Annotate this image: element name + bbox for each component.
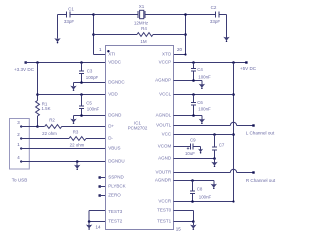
resistor R1 1.5K pull-up <box>36 101 51 127</box>
wire VCCL row <box>174 93 234 96</box>
node XTO net vertical <box>174 13 187 55</box>
svg-text:ZERO: ZERO <box>108 193 121 198</box>
pin PLYBCK stub <box>99 185 106 187</box>
resistor R4 1M <box>94 26 186 44</box>
svg-text:C1: C1 <box>68 7 74 12</box>
svg-text:D-: D- <box>108 136 113 141</box>
svg-text:C2: C2 <box>211 5 217 10</box>
svg-text:XTI: XTI <box>108 52 115 57</box>
svg-text:R Channel out: R Channel out <box>246 178 276 183</box>
svg-text:100nF: 100nF <box>199 195 212 200</box>
svg-text:VOUTR: VOUTR <box>155 170 172 175</box>
resistor R3 22 ohm on D- <box>69 130 106 148</box>
svg-text:VCCR: VCCR <box>158 199 172 204</box>
svg-text:100nF: 100nF <box>87 107 100 112</box>
wire TEST0/TEST1 bracket <box>174 211 195 223</box>
USB pin 3 <box>17 120 39 128</box>
wire DGNDC row <box>74 81 106 84</box>
capacitor C1 <box>64 7 94 25</box>
svg-text:To USB: To USB <box>12 178 28 183</box>
ground on AGNDP row <box>199 81 205 90</box>
R Channel out terminal <box>246 171 276 183</box>
ground on AGND row <box>211 159 217 168</box>
pin number 20 <box>177 47 183 52</box>
capacitor C7 <box>212 135 225 159</box>
svg-text:15: 15 <box>176 227 182 232</box>
pin number 15 <box>176 227 182 232</box>
svg-text:20: 20 <box>177 47 183 52</box>
wire VDDC row <box>26 61 106 64</box>
pin ZERO stub <box>99 194 106 196</box>
wire DGND row <box>74 114 106 117</box>
svg-text:TEST1: TEST1 <box>157 219 172 224</box>
svg-text:22 ohm: 22 ohm <box>70 143 85 148</box>
IC IC1 PCM2702 body <box>106 46 174 230</box>
L Channel out terminal <box>246 124 275 135</box>
capacitor C8 100nF <box>190 181 212 202</box>
svg-text:SSPND: SSPND <box>108 175 124 180</box>
ground for C9 <box>198 147 203 154</box>
ground for TEST3/TEST2 <box>86 222 92 230</box>
svg-text:TEST2: TEST2 <box>108 219 123 224</box>
svg-text:VCCP: VCCP <box>159 60 172 65</box>
USB pin 2 <box>17 132 69 140</box>
wire VDD row <box>38 93 106 96</box>
svg-text:C8: C8 <box>197 187 203 192</box>
pin SSPND stub <box>99 176 106 178</box>
svg-text:100nF: 100nF <box>198 75 211 80</box>
wire AGND row <box>174 157 216 160</box>
svg-text:+3.3V DC: +3.3V DC <box>14 67 35 72</box>
svg-text:22 ohm: 22 ohm <box>42 131 57 136</box>
svg-text:DGNDC: DGNDC <box>108 80 125 85</box>
svg-text:100nF: 100nF <box>198 107 211 112</box>
svg-text:C7: C7 <box>219 143 225 148</box>
crystal X1 12MHz <box>134 4 149 26</box>
ground on AGNDL row <box>199 116 205 125</box>
svg-text:PCM2702: PCM2702 <box>128 126 148 131</box>
svg-text:VBUS: VBUS <box>108 146 120 151</box>
svg-text:VCOM: VCOM <box>158 144 172 149</box>
wire VOUTL row with hop <box>174 122 254 125</box>
wire +5V rail <box>232 63 235 202</box>
ground on DGNDU row <box>74 162 80 171</box>
ground for C2 <box>223 15 229 43</box>
svg-text:VCCL: VCCL <box>159 92 172 97</box>
svg-text:PLYBCK: PLYBCK <box>108 184 125 189</box>
svg-text:VOUTL: VOUTL <box>156 123 172 128</box>
svg-text:R4: R4 <box>141 26 147 31</box>
svg-text:AGND: AGND <box>158 156 172 161</box>
wire AGNDL row <box>174 114 202 117</box>
svg-text:14: 14 <box>95 225 101 230</box>
svg-text:C9: C9 <box>190 138 196 143</box>
svg-text:TEST0: TEST0 <box>157 208 172 213</box>
USB connector J1 <box>10 119 30 183</box>
svg-text:AGNDR: AGNDR <box>155 178 172 183</box>
ground for C1 <box>54 15 60 44</box>
pin number 1 <box>99 47 102 52</box>
ground on DGNDC row <box>70 83 76 91</box>
capacitor C6 100nF <box>191 95 211 116</box>
wire X1 to C2 <box>145 14 215 16</box>
svg-text:R3: R3 <box>73 130 79 135</box>
svg-text:X1: X1 <box>139 4 145 9</box>
wire AGNDR row <box>174 179 214 182</box>
wire +3.3V rail <box>36 63 39 101</box>
+5V DC terminal <box>240 61 257 71</box>
svg-text:C3: C3 <box>87 69 93 74</box>
capacitor C3 100pF <box>79 63 99 83</box>
svg-text:XTO: XTO <box>162 52 172 57</box>
svg-text:AGNDP: AGNDP <box>155 78 171 83</box>
ground for TEST0/TEST1 <box>190 222 196 230</box>
wire C1 to X1 <box>94 14 138 16</box>
ground on AGNDR row <box>211 181 217 190</box>
+3.3V DC terminal <box>14 61 35 72</box>
wire VCCR row <box>174 200 235 203</box>
ground on DGND row <box>70 116 76 124</box>
svg-text:10uF: 10uF <box>185 151 195 156</box>
svg-text:33pF: 33pF <box>64 19 75 24</box>
wire TEST3/TEST2 bracket <box>88 211 106 223</box>
wire VCC row <box>174 133 234 136</box>
svg-text:C6: C6 <box>197 100 203 105</box>
wire VCCP row <box>174 61 247 64</box>
svg-text:1.5K: 1.5K <box>41 106 50 111</box>
svg-text:12MHz: 12MHz <box>134 21 149 26</box>
capacitor C9 10uF <box>174 138 201 156</box>
svg-text:+5V DC: +5V DC <box>240 66 257 71</box>
svg-text:100pF: 100pF <box>86 75 99 80</box>
svg-text:R2: R2 <box>49 118 55 123</box>
svg-text:TEST3: TEST3 <box>108 209 123 214</box>
wire AGNDP row <box>174 79 202 82</box>
svg-text:L Channel out: L Channel out <box>246 131 275 136</box>
svg-text:C4: C4 <box>197 67 203 72</box>
capacitor C5 100nF <box>79 95 100 116</box>
resistor R2 22 ohm on D+ <box>38 118 106 137</box>
svg-text:VDDC: VDDC <box>108 60 122 65</box>
IC right pin labels <box>155 52 172 224</box>
svg-text:D+: D+ <box>108 124 114 129</box>
svg-text:C5: C5 <box>86 101 92 106</box>
svg-text:1M: 1M <box>140 39 147 44</box>
capacitor C4 100nF <box>191 63 211 81</box>
wire VOUTR row with hop <box>174 169 254 172</box>
pin number 14 <box>95 225 101 230</box>
USB pin 1 <box>17 142 105 150</box>
node XTI net vertical <box>92 13 105 54</box>
wire top-left C1 ground rail <box>58 14 67 16</box>
IC left pin labels <box>108 52 125 224</box>
svg-text:AGNDL: AGNDL <box>156 113 172 118</box>
svg-text:DGND: DGND <box>108 113 122 118</box>
USB pin 4 <box>17 155 105 163</box>
svg-text:VCC: VCC <box>162 132 172 137</box>
svg-text:VDD: VDD <box>108 92 118 97</box>
svg-text:DGNDU: DGNDU <box>108 159 125 164</box>
capacitor C2 <box>210 5 227 24</box>
svg-text:33pF: 33pF <box>210 19 221 24</box>
